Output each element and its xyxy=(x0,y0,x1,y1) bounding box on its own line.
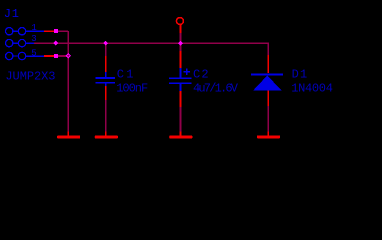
pin lead of port (red) xyxy=(180,25,182,33)
pin lead C1 top (red) xyxy=(105,56,107,72)
junction diamond at gnd net / pin5 xyxy=(66,53,71,58)
wire: main net down to C1 xyxy=(105,43,107,56)
wire: C2 bottom to gnd xyxy=(180,107,182,132)
svg-text:JUMP2X3: JUMP2X3 xyxy=(5,70,55,84)
wire: C1 bottom to gnd xyxy=(105,100,107,132)
svg-text:C2: C2 xyxy=(193,67,210,81)
wire: main net down to C2 xyxy=(180,43,182,51)
C2 plate bottom xyxy=(169,82,191,84)
ground GND4 (D1) xyxy=(257,132,280,139)
connector J1 (JUMP2X3) xyxy=(4,7,56,84)
pin 3 stub xyxy=(26,42,35,44)
pin row 3 link xyxy=(9,55,22,57)
pin row 3 pads xyxy=(6,52,13,59)
junction dot C2 / main net xyxy=(178,41,183,46)
pin 5 stub xyxy=(26,55,44,57)
wire: port drop to main net xyxy=(180,33,182,43)
junction dot C1 / main net xyxy=(103,41,108,46)
C1 bottom stub xyxy=(105,83,107,86)
C2 bottom stub xyxy=(180,84,182,91)
pin lead D1 bottom (red) xyxy=(267,91,269,106)
wire: main horizontal net xyxy=(34,43,268,55)
wire: gnd vertical drop at x=68 xyxy=(67,31,69,132)
ground GND1 (jumper net) xyxy=(57,132,80,139)
port terminal circle (open pin) xyxy=(176,18,183,25)
junction square at pin 1 net xyxy=(54,29,58,33)
svg-text:D1: D1 xyxy=(292,67,309,81)
pin row 2 pads xyxy=(6,39,13,46)
junction square at pin 5 net xyxy=(54,54,58,58)
capacitor C2 (polarized) xyxy=(169,51,239,107)
ground GND2 (C1) xyxy=(95,132,118,139)
C1 plate bottom xyxy=(95,82,115,84)
diode D1 xyxy=(251,55,333,106)
D1 anode triangle xyxy=(253,75,282,90)
wire: D1 bottom to gnd xyxy=(267,106,269,132)
pin row 1 pads xyxy=(6,28,13,35)
capacitor C1 xyxy=(95,56,148,100)
svg-text:1N4004: 1N4004 xyxy=(291,82,333,96)
svg-text:5: 5 xyxy=(31,49,36,59)
wire: net from pin 1 to gnd rail corner xyxy=(54,30,68,32)
svg-text:1: 1 xyxy=(31,23,36,33)
pin lead J1-1 (red) xyxy=(44,30,54,32)
C1 plate top xyxy=(95,77,115,79)
C1 top stub xyxy=(105,72,107,78)
pin row 2 link xyxy=(9,42,22,44)
wire: net from pin 5 to gnd vertical xyxy=(54,55,68,57)
svg-text:100nF: 100nF xyxy=(116,82,148,96)
pin lead C2 top (red) xyxy=(180,51,182,68)
svg-text:4u7/1.6V: 4u7/1.6V xyxy=(193,82,239,96)
D1 cathode bar xyxy=(251,73,283,75)
pin lead J1-5 (red) xyxy=(44,55,54,57)
C2 top stub xyxy=(180,68,182,78)
C2 plate top xyxy=(169,77,191,79)
svg-text:J1: J1 xyxy=(4,7,20,21)
ground GND3 (C2) xyxy=(169,132,192,139)
junction dot pin 3 / main net xyxy=(53,41,58,46)
pin lead D1 top (red) xyxy=(267,55,269,73)
pin row 1 link xyxy=(9,30,22,32)
pin lead C1 bottom (red) xyxy=(105,86,107,100)
svg-text:C1: C1 xyxy=(117,67,136,81)
C2 plus sign xyxy=(184,69,190,75)
pin 1 stub xyxy=(26,30,44,32)
pin lead C2 bottom (red) xyxy=(180,91,182,107)
